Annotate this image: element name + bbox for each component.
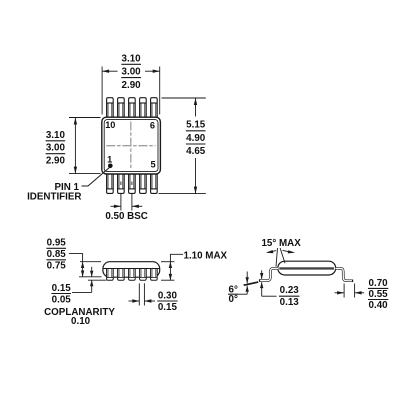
svg-text:4.65: 4.65 bbox=[186, 146, 206, 157]
dim 1.10 MAX leader bbox=[170, 254, 183, 261]
end view package body (lens) bbox=[278, 261, 336, 275]
dim right: extension line bottom bbox=[159, 193, 206, 195]
side view package body bbox=[103, 262, 160, 278]
side view lead exit line bbox=[103, 268, 160, 270]
svg-text:0°: 0° bbox=[229, 294, 238, 305]
lead 3 (bottom row, center) bbox=[129, 173, 136, 193]
svg-text:2.90: 2.90 bbox=[46, 156, 66, 167]
package body outline (outer) bbox=[102, 117, 161, 174]
svg-text:1.10 MAX: 1.10 MAX bbox=[184, 251, 228, 262]
side view leg 5 bbox=[151, 269, 158, 281]
lead 9 (top row) bbox=[118, 98, 125, 118]
lead 6 (top row, rightmost) bbox=[151, 98, 158, 118]
dim 0.15/0.05 arrows bbox=[91, 267, 93, 277]
lead 8 (top row, center) bbox=[129, 98, 136, 118]
svg-text:IDENTIFIER: IDENTIFIER bbox=[27, 191, 81, 202]
dim 0.50 BSC: extension line from lead 2 bbox=[120, 182, 122, 186]
dim 0.70/0.55/0.40 extension lines bbox=[343, 284, 345, 298]
svg-text:0.15: 0.15 bbox=[158, 302, 178, 313]
pin 1 identifier dot bbox=[108, 164, 113, 169]
15 MAX arrow left bbox=[268, 251, 277, 253]
dim 0.15/0.05 leader bbox=[72, 291, 92, 293]
svg-text:0.13: 0.13 bbox=[280, 297, 300, 308]
svg-text:0.95: 0.95 bbox=[47, 238, 67, 249]
dim right: vertical arrow line bbox=[195, 98, 197, 117]
svg-text:5.15: 5.15 bbox=[186, 120, 206, 131]
dim 0.70/0.55/0.40 arrows bbox=[335, 292, 345, 294]
center line horizontal (gray) bbox=[106, 145, 155, 147]
dim 0.50 BSC: extension line from lead 3 bbox=[131, 182, 133, 186]
15 MAX angle line right bbox=[280, 248, 285, 263]
dim 0.30/0.15 extension lines bbox=[138, 283, 140, 305]
dim top: arrow left bbox=[102, 70, 117, 72]
svg-text:0.85: 0.85 bbox=[47, 249, 67, 260]
svg-text:0.05: 0.05 bbox=[52, 294, 72, 305]
svg-text:0.55: 0.55 bbox=[369, 289, 389, 300]
svg-text:0.40: 0.40 bbox=[369, 300, 389, 311]
lead 5 (bottom row, rightmost) bbox=[151, 173, 158, 193]
dim left: extension line bottom bbox=[69, 173, 101, 175]
svg-text:0.23: 0.23 bbox=[280, 285, 300, 296]
svg-text:0.75: 0.75 bbox=[47, 261, 67, 272]
15 MAX angle line left bbox=[276, 248, 278, 267]
svg-text:3.10: 3.10 bbox=[122, 53, 142, 64]
package body outline (inner) bbox=[104, 120, 158, 172]
dim top: extension line right bbox=[159, 67, 161, 115]
side view leg 2 bbox=[118, 269, 125, 281]
extension line bottom of body (left) bbox=[79, 276, 102, 278]
lead 4 (bottom row) bbox=[140, 173, 147, 193]
dim left: vertical arrow line bbox=[74, 118, 76, 174]
lead 7 (top row) bbox=[140, 98, 147, 118]
svg-text:5: 5 bbox=[150, 159, 155, 169]
dim top: arrow right bbox=[145, 70, 160, 72]
svg-text:15° MAX: 15° MAX bbox=[261, 238, 301, 249]
dim top: extension line left bbox=[101, 67, 103, 115]
end view left gull-wing lead bbox=[259, 268, 278, 280]
svg-text:3.00: 3.00 bbox=[46, 143, 66, 154]
dim 0.95/0.85/0.75 leader bbox=[69, 254, 83, 262]
svg-text:0.50 BSC: 0.50 BSC bbox=[105, 211, 147, 222]
side view leg 4 bbox=[140, 269, 147, 281]
extension line top of body (left) bbox=[80, 261, 101, 263]
svg-text:3.10: 3.10 bbox=[46, 130, 66, 141]
dim left: extension line top bbox=[69, 117, 101, 119]
extension line seating plane (left) bbox=[88, 279, 106, 281]
svg-text:0.30: 0.30 bbox=[158, 290, 178, 301]
dim 0.95/0.85/0.75 arrows bbox=[82, 262, 84, 277]
svg-text:10: 10 bbox=[105, 120, 115, 130]
svg-text:2.90: 2.90 bbox=[122, 80, 142, 91]
dim 0.23/0.13 leader bbox=[262, 295, 277, 297]
svg-text:6: 6 bbox=[150, 120, 155, 130]
dim 0.23/0.13 arrows bbox=[261, 270, 263, 279]
lead 10 (top row, leftmost) bbox=[107, 98, 114, 118]
dim right: extension line top bbox=[162, 97, 206, 99]
6 degree wedge foot bbox=[243, 281, 258, 286]
side view leg 3 bbox=[129, 269, 136, 281]
svg-text:0.15: 0.15 bbox=[52, 283, 72, 294]
dim 0.30/0.15 arrows bbox=[129, 300, 140, 302]
svg-text:0.10: 0.10 bbox=[71, 316, 91, 327]
dim 1.10 MAX arrows bbox=[169, 262, 171, 281]
end view parting band bbox=[279, 267, 334, 269]
dim 6/0 degree arrows bbox=[246, 272, 248, 284]
side view leg 1 bbox=[107, 269, 114, 281]
15 MAX arrow right bbox=[283, 250, 294, 252]
dim 1.10 MAX extension bottom (right) bbox=[161, 279, 174, 281]
svg-text:4.90: 4.90 bbox=[186, 133, 206, 144]
svg-text:3.00: 3.00 bbox=[122, 67, 142, 78]
svg-text:1: 1 bbox=[107, 154, 112, 164]
end view right gull-wing lead bbox=[336, 268, 354, 280]
pin 1 leader line bbox=[82, 168, 110, 186]
lead 2 (bottom row) bbox=[118, 173, 125, 193]
lead 1 (bottom row, leftmost) bbox=[107, 173, 114, 193]
dim 6/0 leader bbox=[239, 293, 248, 295]
dim 1.10 MAX extension top (right) bbox=[161, 261, 174, 263]
dim 0.50 BSC: arrows bbox=[111, 205, 121, 207]
svg-text:0.70: 0.70 bbox=[369, 278, 389, 289]
center line vertical (gray) bbox=[130, 122, 132, 170]
